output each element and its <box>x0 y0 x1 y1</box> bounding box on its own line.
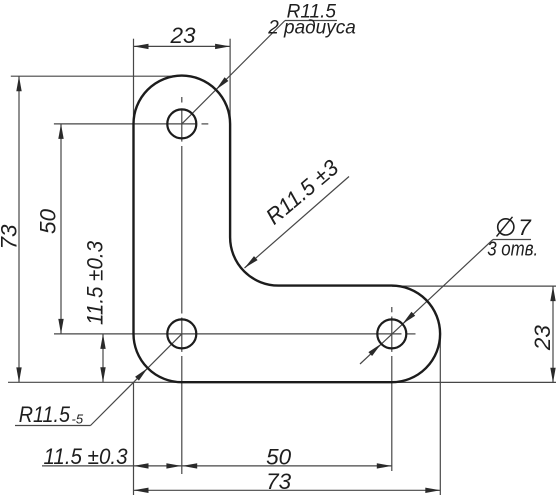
centerline vertical through bottom-left hole <box>181 318 183 352</box>
dimension line 50 left <box>60 124 62 334</box>
svg-text:73: 73 <box>266 469 292 494</box>
arrow 73 left down <box>16 367 21 382</box>
dimension line 73 left <box>18 76 20 382</box>
leader shelf R11.5 2 radiusa <box>285 20 337 22</box>
centerline dash right of top hole <box>202 123 209 125</box>
svg-text:23: 23 <box>169 23 196 48</box>
svg-text:3 отв.: 3 отв. <box>487 239 538 261</box>
svg-text:50: 50 <box>36 209 61 235</box>
centerline vertical through top hole <box>181 110 183 142</box>
extension line bottom for right 23 dim <box>392 381 556 383</box>
extension line / centerline top hole horizontal <box>54 123 196 125</box>
dimension line 11.5 and 50 bottom <box>42 465 392 467</box>
centerline horizontal through bottom holes <box>54 333 402 335</box>
hole top <box>167 109 196 138</box>
arrow 50 left up <box>58 124 63 139</box>
arrow 11.5 left up <box>100 334 105 349</box>
extension line left of plate bottom, lower run <box>133 382 135 495</box>
arrow 11.5 bottom left <box>134 463 149 468</box>
plate outline <box>134 76 441 383</box>
label dia 7 symbol circle <box>498 219 514 235</box>
svg-text:50: 50 <box>266 445 292 470</box>
label dia 7 symbol slash <box>497 217 513 237</box>
arrow 50 left down <box>58 319 63 334</box>
svg-text:2 радиуса: 2 радиуса <box>267 18 356 39</box>
extension line right end vertical <box>439 336 441 496</box>
arrow 11.5 bottom right <box>166 463 181 468</box>
extension line bottom-left at plate bottom <box>8 381 182 383</box>
dimension line 23 top <box>134 45 231 47</box>
extension line top for 73 left <box>11 75 178 77</box>
centerline vertical long run between holes <box>181 146 183 314</box>
arrow 11.5 left down <box>100 367 105 382</box>
dimension line 11.5 left vertical <box>102 334 104 382</box>
arrow leader R11.5 -5 <box>135 368 148 381</box>
centerline vertical through right hole <box>391 317 393 352</box>
leader shelf R11.5 -5 <box>15 425 91 427</box>
svg-text:11.5 ±0.3: 11.5 ±0.3 <box>83 241 108 325</box>
arrow leader 2 radiusa <box>216 77 229 90</box>
arrow 50 bottom right <box>377 463 392 468</box>
svg-text:R11.5: R11.5 <box>19 402 71 427</box>
centerline vertical short dash above right hole <box>391 307 393 312</box>
arrow leader R11.5 +-3 <box>245 256 258 268</box>
leader line dia 7 <box>360 240 493 365</box>
arrow 23 right down <box>550 368 555 383</box>
svg-text:-5: -5 <box>72 412 84 427</box>
svg-text:23: 23 <box>530 325 555 352</box>
svg-text:73: 73 <box>0 224 22 250</box>
leader line R11.5 -5 <box>91 334 182 426</box>
arrow 50 bottom left <box>182 463 197 468</box>
centerline vertical below right hole <box>391 356 393 471</box>
hole bottom-left <box>167 319 196 348</box>
leader line R11.5 +-3 <box>245 177 350 269</box>
arrow 73 bottom right <box>425 488 440 493</box>
dimension line 73 bottom <box>134 489 441 491</box>
arrow 23 top left <box>134 44 149 49</box>
hole bottom-right <box>377 319 406 348</box>
arrow 73 left up <box>16 76 21 91</box>
extension line right of 23 top dim <box>229 39 231 125</box>
centerline vertical of left holes: short dash above top hole <box>181 97 183 103</box>
leader line R11.5 2 radiusa <box>182 21 285 124</box>
arrow 73 bottom left <box>134 488 149 493</box>
dimension line 23 right <box>552 286 554 383</box>
arrow 23 right up <box>550 286 555 301</box>
arrow dia7 lower <box>368 344 381 356</box>
arrow dia7 upper <box>402 312 415 324</box>
leader shelf dia 7 <box>493 239 531 241</box>
extension line left of 23 top dim <box>133 39 135 125</box>
centerline dash right of right hole <box>407 333 416 335</box>
centerline vertical below bottom-left hole down to dims <box>181 356 183 474</box>
svg-text:11.5 ±0.3: 11.5 ±0.3 <box>44 444 128 469</box>
svg-text:7: 7 <box>518 215 532 240</box>
arrow 23 top right <box>215 44 230 49</box>
extension line top for right 23 dim <box>392 285 556 287</box>
